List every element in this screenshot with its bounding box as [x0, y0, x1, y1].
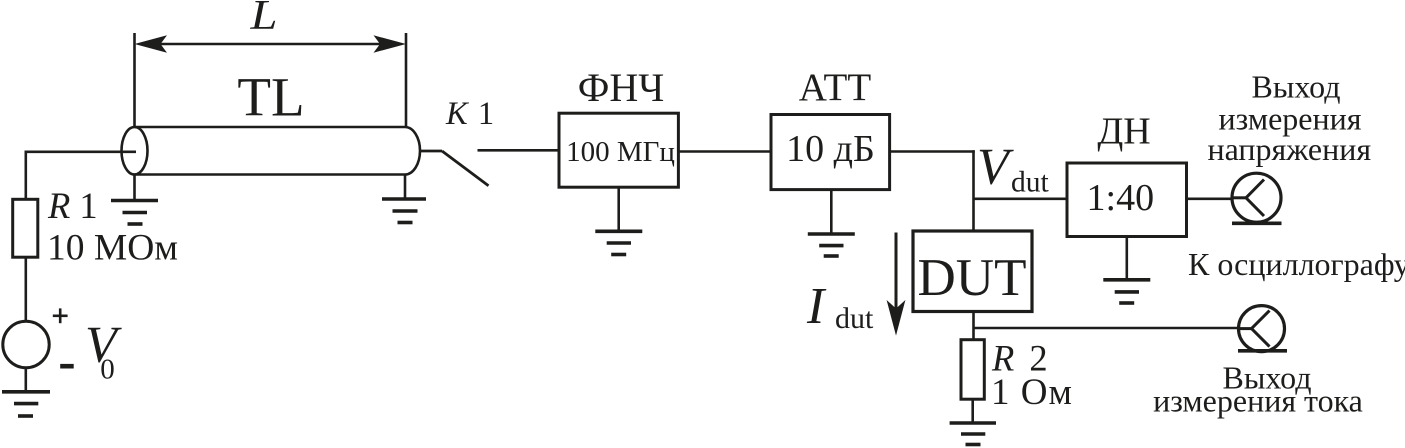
svg-text:TL: TL — [237, 67, 304, 128]
connector current output — [1238, 306, 1287, 352]
label + — [53, 308, 68, 323]
block ДН (voltage divider) — [1067, 163, 1187, 237]
label Выход измерения напряжения — [1207, 69, 1371, 168]
svg-text:АТТ: АТТ — [799, 66, 872, 109]
svg-text:1:40: 1:40 — [1087, 177, 1155, 219]
svg-text:напряжения: напряжения — [1207, 131, 1371, 167]
label Выход измерения тока — [1153, 359, 1363, 418]
label V0 — [85, 316, 122, 385]
svg-text:I: I — [806, 278, 827, 335]
block ФНЧ (low-pass filter) — [559, 113, 678, 187]
label V_dut — [977, 138, 1050, 198]
svg-text:измерения тока: измерения тока — [1153, 383, 1363, 419]
resistor R2 — [961, 340, 984, 400]
wire — [24, 257, 27, 322]
wire — [24, 368, 27, 392]
wire — [974, 327, 1239, 330]
block АТТ (attenuator) — [771, 115, 890, 190]
svg-text:K 1: K 1 — [445, 96, 495, 132]
wire — [972, 312, 975, 342]
wire — [1187, 198, 1234, 201]
ground — [950, 399, 996, 444]
resistor R1 — [13, 199, 38, 257]
svg-text:DUT: DUT — [918, 249, 1027, 307]
transmission line TL — [122, 127, 421, 175]
wire — [890, 150, 975, 153]
svg-text:10 дБ: 10 дБ — [786, 128, 875, 170]
svg-text:dut: dut — [1011, 167, 1050, 199]
label - — [60, 364, 73, 369]
switch K1 — [420, 151, 489, 186]
svg-text:К осциллографу: К осциллографу — [1188, 246, 1405, 282]
ground — [595, 187, 642, 254]
wire — [26, 151, 136, 154]
wire — [24, 151, 27, 200]
svg-text:Выход: Выход — [1252, 69, 1341, 105]
svg-text:L: L — [249, 0, 277, 39]
wire — [678, 150, 771, 153]
wire — [478, 149, 560, 152]
svg-text:ФНЧ: ФНЧ — [578, 65, 664, 110]
ground — [2, 392, 50, 416]
svg-text:100 МГц: 100 МГц — [566, 136, 675, 168]
ground — [808, 190, 855, 256]
svg-text:R 1: R 1 — [47, 185, 98, 226]
wire — [974, 198, 1068, 201]
ground — [382, 175, 426, 223]
svg-text:dut: dut — [835, 302, 874, 335]
svg-text:V: V — [977, 138, 1014, 195]
ground — [111, 175, 158, 225]
block DUT — [913, 231, 1032, 312]
voltage source V0 — [3, 321, 49, 367]
label I_dut — [806, 278, 874, 335]
current arrow I_dut — [887, 233, 906, 336]
ground — [1103, 237, 1150, 304]
connector voltage output — [1232, 173, 1282, 223]
svg-text:0: 0 — [100, 353, 115, 385]
svg-text:ДН: ДН — [1097, 111, 1150, 153]
svg-text:10 МОм: 10 МОм — [47, 228, 178, 269]
wire — [972, 150, 975, 231]
dimension arrow L — [135, 33, 407, 127]
svg-text:1 Ом: 1 Ом — [991, 372, 1073, 413]
